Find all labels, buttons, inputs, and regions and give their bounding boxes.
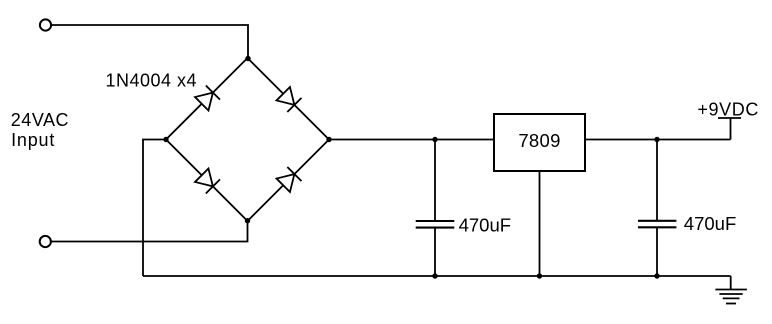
- bridge diamond side bottom-left: [166, 140, 248, 222]
- wire bottom input to bridge bottom corner: [51, 221, 247, 242]
- svg-text:7809: 7809: [518, 130, 560, 151]
- diode D2 (top-right, 1N4004): [276, 87, 301, 112]
- node C2 top: [654, 137, 659, 142]
- svg-text:470uF: 470uF: [459, 215, 511, 236]
- node C1 bottom: [432, 273, 437, 278]
- bridge diamond side top-left: [166, 58, 248, 140]
- diode D3 (bottom-left, 1N4004): [195, 168, 220, 193]
- diode D1 (top-left, 1N4004): [195, 86, 220, 111]
- wire ground rail bottom: [143, 275, 731, 277]
- wire bridge right corner to regulator input: [329, 139, 494, 141]
- regulator U1 7809: [494, 114, 585, 171]
- node bridge right corner: [326, 137, 331, 142]
- terminal J1 (AC input top): [40, 19, 51, 30]
- ground: [715, 276, 747, 304]
- svg-text:Input: Input: [11, 130, 55, 150]
- wire bridge left corner to ground rail: [143, 140, 166, 277]
- svg-text:+9VDC: +9VDC: [697, 100, 759, 120]
- node bridge top corner: [245, 56, 250, 61]
- node bridge bottom corner: [245, 218, 250, 223]
- wire top input to bridge top corner: [52, 25, 249, 58]
- node bridge left corner: [163, 137, 168, 142]
- capacitor C2 470uF: [638, 140, 676, 277]
- svg-text:470uF: 470uF: [684, 213, 736, 234]
- capacitor C1 470uF: [416, 140, 455, 277]
- node +9VDC output stub: [718, 118, 741, 140]
- node C1 top: [432, 137, 437, 142]
- svg-text:1N4004 x4: 1N4004 x4: [106, 70, 198, 90]
- terminal J2 (AC input bottom): [40, 236, 51, 247]
- wire regulator ground pin: [539, 171, 541, 276]
- wire regulator output to +9VDC: [585, 139, 731, 141]
- node regulator ground: [537, 273, 542, 278]
- bridge diamond side bottom-right: [248, 140, 330, 222]
- bridge diamond side top-right: [248, 58, 330, 140]
- node C2 bottom: [654, 273, 659, 278]
- diode D4 (bottom-right, 1N4004): [276, 167, 301, 192]
- svg-text:24VAC: 24VAC: [11, 110, 69, 130]
